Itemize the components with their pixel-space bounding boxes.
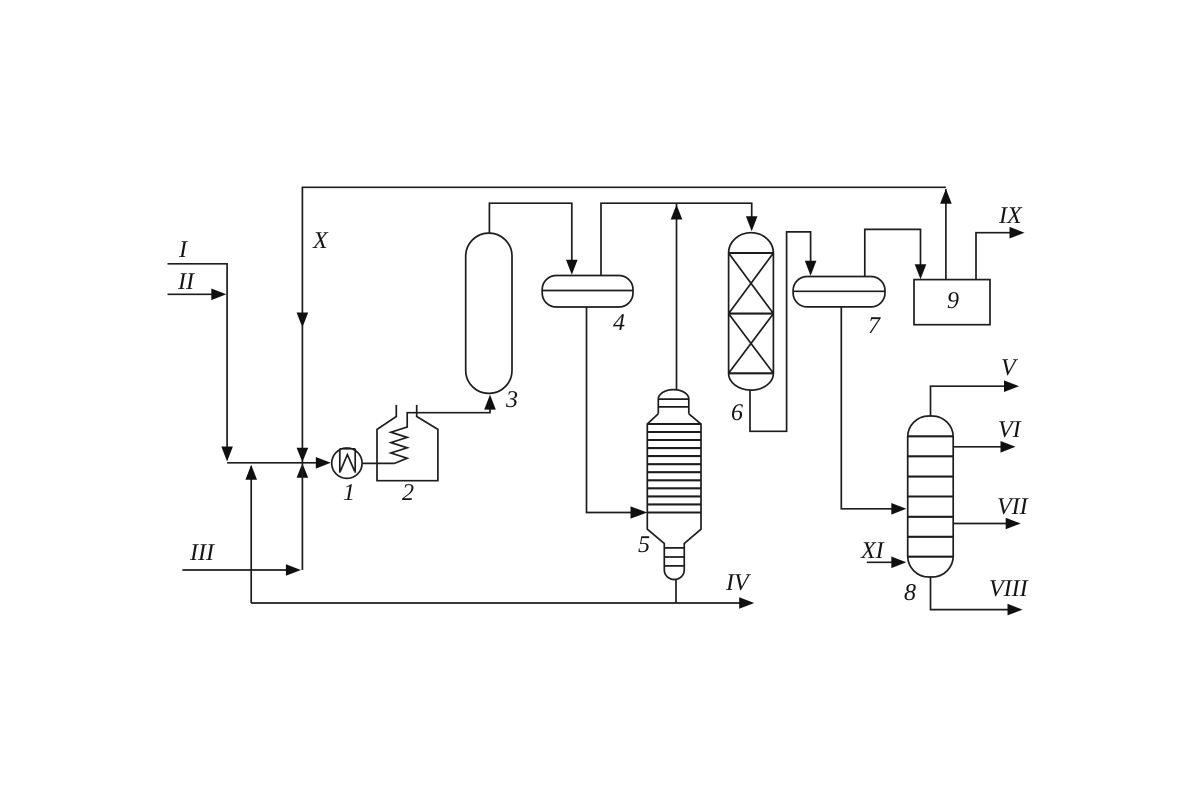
svg-text:IV: IV: [725, 570, 751, 596]
stream IX line: [976, 233, 1011, 280]
node X mid arrow: [297, 313, 309, 328]
drum 4: [542, 276, 633, 308]
wire drum 4 overhead to column 6: [601, 203, 752, 275]
svg-text:9: 9: [947, 288, 959, 314]
arrow into unit 9: [915, 264, 927, 279]
svg-text:II: II: [177, 269, 195, 295]
svg-text:1: 1: [343, 480, 355, 506]
column 6 shell: [729, 233, 774, 390]
drum 7: [793, 277, 885, 307]
wire drum 7 overhead to unit 9: [865, 229, 921, 276]
column 6 packing X upper: [729, 253, 774, 314]
stream I arrow down: [221, 447, 233, 462]
svg-text:IX: IX: [998, 203, 1023, 229]
wire bottoms line IV: [251, 602, 740, 604]
wire column 6 bottoms to drum 7: [750, 232, 811, 431]
stream V line: [931, 386, 1005, 416]
wire unit 9 recycle up to top line: [945, 189, 947, 280]
drum 7 level line: [793, 290, 885, 292]
svg-text:III: III: [189, 540, 215, 566]
arrow into drum 7: [805, 261, 817, 276]
drum 4 level line: [542, 290, 633, 292]
wire column 5 overhead riser: [676, 203, 678, 389]
reactor column 5 body top line: [647, 423, 701, 425]
stream VIII line: [931, 577, 1009, 610]
svg-text:5: 5: [638, 532, 650, 558]
wire main feed line to exchanger: [227, 462, 317, 464]
svg-text:XI: XI: [860, 538, 885, 564]
reactor column 5 trays: [647, 432, 701, 513]
svg-text:4: 4: [613, 310, 625, 336]
svg-text:V: V: [1001, 355, 1018, 381]
stream VII line: [953, 523, 1006, 525]
reactor column 5 neck: [658, 399, 689, 414]
column 6 packing X lower: [729, 314, 774, 374]
column 8 trays: [908, 436, 954, 556]
svg-text:2: 2: [402, 480, 414, 506]
wire column 5 bottoms: [675, 579, 677, 603]
node junction bowtie up arrow: [297, 463, 309, 478]
stream VII arrow: [1006, 518, 1021, 530]
arrow furnace outlet into vessel 3: [484, 395, 496, 410]
svg-text:8: 8: [904, 580, 916, 606]
wire drum 4 bottoms to column 5 feed: [587, 307, 632, 513]
reactor column 5 dome: [658, 390, 689, 399]
stream III arrow: [286, 564, 301, 576]
arrow into drum 4: [566, 260, 578, 275]
arrow feed into column 8: [891, 503, 906, 515]
reactor column 5 body: [647, 414, 701, 580]
stream XI arrow: [891, 557, 906, 569]
wire recycle top line X: [302, 187, 946, 463]
furnace 2 body: [377, 405, 438, 481]
column 8 shell: [908, 416, 954, 577]
reactor column 5 bottom neck lines: [664, 548, 684, 566]
stream III riser: [301, 463, 303, 570]
arrow feed into column 5: [631, 506, 648, 518]
svg-text:3: 3: [505, 387, 518, 413]
stream VI line: [953, 446, 1001, 448]
stream VI arrow: [1001, 441, 1016, 453]
heat exchanger 1 circle: [332, 448, 362, 478]
arrow column 5 overhead up: [671, 205, 683, 220]
column 6 bed lines: [729, 253, 774, 373]
stream V arrow: [1004, 380, 1019, 392]
node junction bowtie down arrow: [297, 448, 309, 463]
furnace 2 coil: [391, 409, 490, 463]
stream IV arrow: [739, 597, 754, 609]
wire drum 7 bottoms to column 8: [841, 307, 892, 509]
heat exchanger 1 internals: [340, 449, 355, 473]
stream III line: [182, 569, 287, 571]
separator vessel 3: [466, 233, 512, 393]
stream II line: [168, 293, 213, 295]
svg-text:VIII: VIII: [989, 576, 1029, 602]
wire vessel 3 overhead to drum 4: [489, 203, 571, 260]
arrow into exchanger 1: [316, 457, 331, 469]
stream IX arrow: [1010, 227, 1025, 239]
svg-text:VI: VI: [998, 417, 1022, 443]
svg-text:I: I: [178, 237, 188, 263]
arrow into column 6: [746, 216, 758, 231]
stream II arrow: [211, 289, 226, 301]
stream XI line: [867, 561, 893, 563]
arrow unit 9 recycle up: [940, 189, 952, 204]
wire exchanger to furnace coil: [362, 462, 394, 464]
svg-text:X: X: [312, 228, 329, 254]
stream VIII arrow: [1008, 604, 1023, 616]
unit 9 box: [914, 280, 990, 325]
arrow recycle riser up: [245, 465, 257, 480]
svg-text:6: 6: [731, 400, 743, 426]
svg-text:7: 7: [868, 313, 881, 339]
stream I line: [168, 264, 228, 447]
svg-text:VII: VII: [997, 494, 1029, 520]
wire recycle riser from bottoms line: [250, 466, 252, 603]
